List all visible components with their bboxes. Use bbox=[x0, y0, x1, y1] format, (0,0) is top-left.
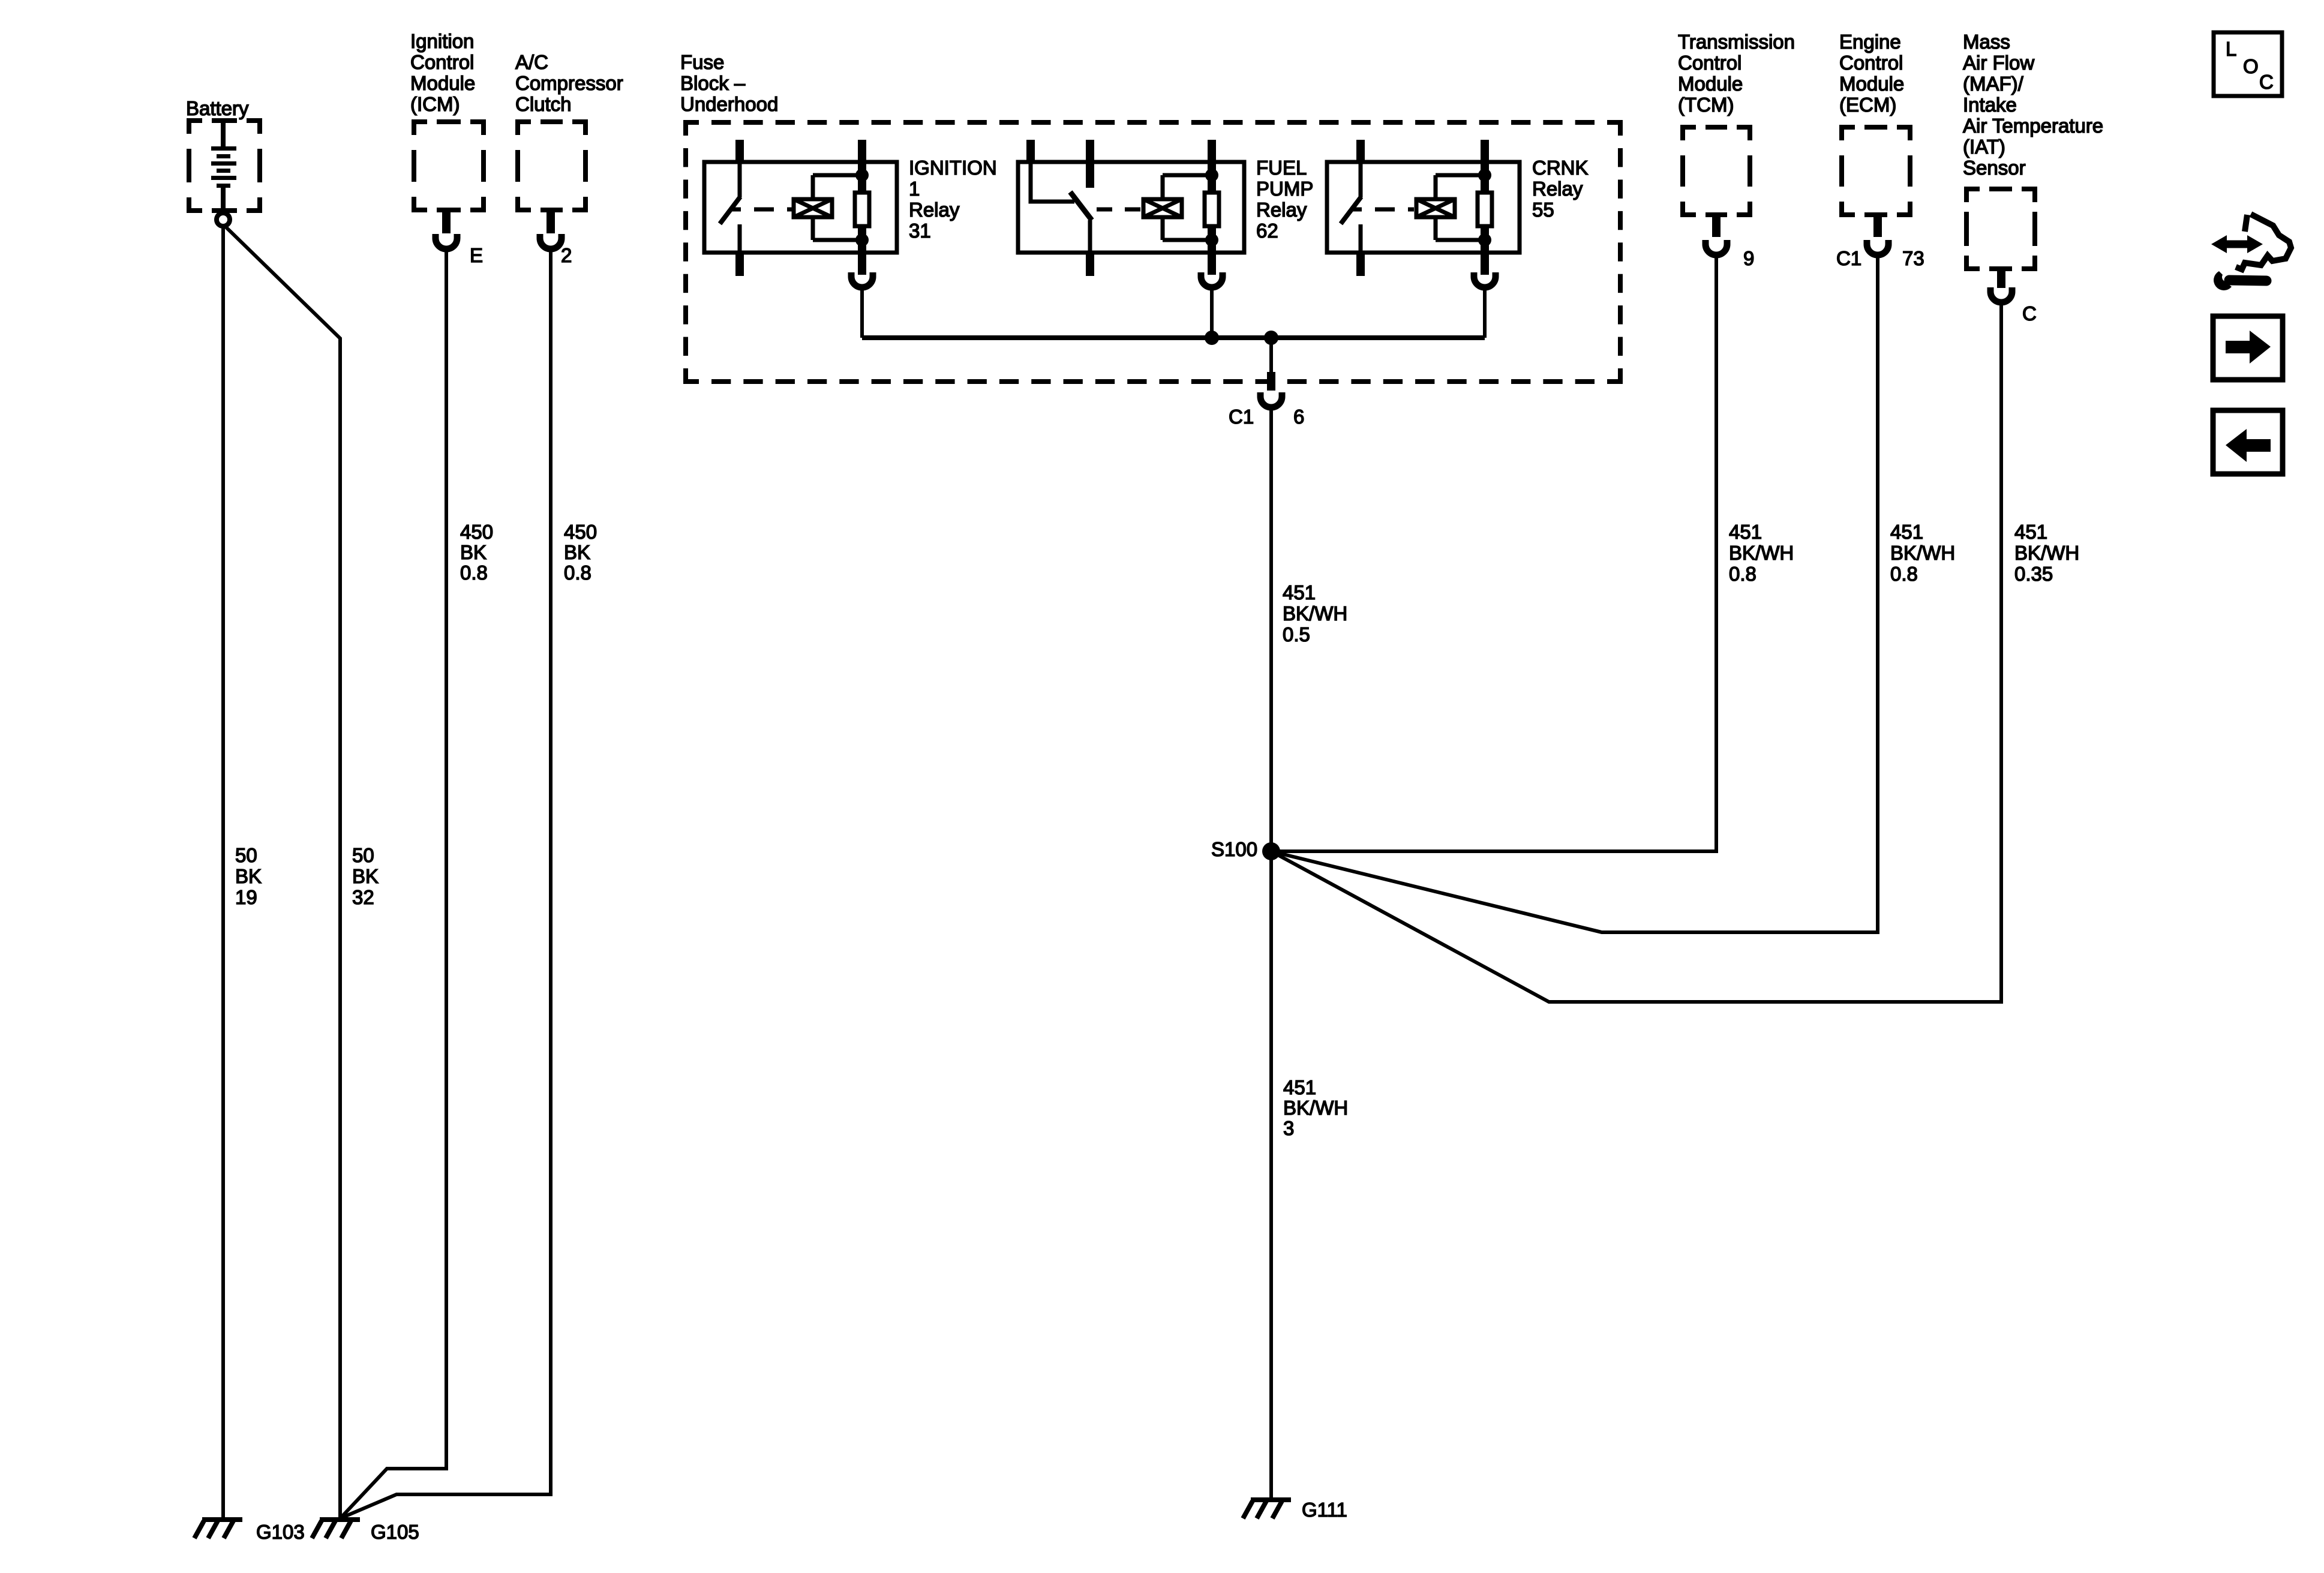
svg-text:(ECM): (ECM) bbox=[1839, 94, 1896, 116]
svg-text:G103: G103 bbox=[256, 1521, 305, 1543]
svg-text:Relay: Relay bbox=[1256, 199, 1307, 221]
svg-text:O: O bbox=[2243, 55, 2259, 77]
svg-text:31: 31 bbox=[909, 220, 931, 242]
svg-text:CRNK: CRNK bbox=[1532, 157, 1589, 179]
svg-text:50: 50 bbox=[235, 844, 257, 866]
svg-text:0.8: 0.8 bbox=[1729, 563, 1756, 585]
svg-text:0.5: 0.5 bbox=[1283, 623, 1310, 646]
svg-text:451: 451 bbox=[1890, 521, 1923, 543]
svg-text:Air Temperature: Air Temperature bbox=[1963, 115, 2103, 137]
svg-text:Compressor: Compressor bbox=[515, 72, 623, 94]
svg-text:0.35: 0.35 bbox=[2014, 563, 2053, 585]
svg-text:(ICM): (ICM) bbox=[410, 93, 460, 115]
svg-text:9: 9 bbox=[1743, 247, 1754, 269]
svg-text:451: 451 bbox=[2014, 521, 2047, 543]
svg-text:G111: G111 bbox=[1302, 1499, 1347, 1521]
svg-text:C: C bbox=[2022, 302, 2037, 325]
svg-text:Module: Module bbox=[1678, 73, 1743, 95]
svg-text:(MAF)/: (MAF)/ bbox=[1963, 73, 2024, 95]
svg-text:Transmission: Transmission bbox=[1678, 31, 1795, 53]
svg-text:BK/WH: BK/WH bbox=[1890, 542, 1955, 564]
svg-text:450: 450 bbox=[564, 521, 597, 543]
svg-text:E: E bbox=[470, 244, 483, 266]
svg-text:1: 1 bbox=[909, 178, 920, 200]
svg-text:Module: Module bbox=[1839, 73, 1904, 95]
svg-text:62: 62 bbox=[1256, 220, 1278, 242]
svg-text:PUMP: PUMP bbox=[1256, 178, 1313, 200]
svg-text:Engine: Engine bbox=[1839, 31, 1901, 53]
svg-text:Intake: Intake bbox=[1963, 94, 2017, 116]
svg-text:55: 55 bbox=[1532, 199, 1554, 221]
svg-text:C1: C1 bbox=[1836, 247, 1861, 269]
svg-text:6: 6 bbox=[1293, 406, 1304, 428]
svg-text:32: 32 bbox=[352, 886, 374, 908]
svg-text:(TCM): (TCM) bbox=[1678, 94, 1734, 116]
svg-text:451: 451 bbox=[1729, 521, 1762, 543]
svg-text:Block –: Block – bbox=[680, 72, 746, 94]
svg-text:S100: S100 bbox=[1211, 838, 1257, 860]
svg-text:A/C: A/C bbox=[515, 51, 548, 73]
svg-text:Mass: Mass bbox=[1963, 31, 2010, 53]
svg-text:450: 450 bbox=[460, 521, 493, 543]
svg-text:19: 19 bbox=[235, 886, 257, 908]
svg-text:0.8: 0.8 bbox=[460, 562, 488, 584]
svg-text:C: C bbox=[2259, 71, 2274, 93]
svg-text:FUEL: FUEL bbox=[1256, 157, 1307, 179]
svg-text:Air Flow: Air Flow bbox=[1963, 52, 2034, 74]
svg-text:2: 2 bbox=[561, 244, 572, 266]
svg-text:BK/WH: BK/WH bbox=[1283, 602, 1347, 625]
svg-text:BK: BK bbox=[352, 865, 379, 887]
svg-text:BK: BK bbox=[235, 865, 262, 887]
svg-text:IGNITION: IGNITION bbox=[909, 157, 997, 179]
svg-text:73: 73 bbox=[1902, 247, 1924, 269]
svg-text:0.8: 0.8 bbox=[1890, 563, 1918, 585]
svg-text:0.8: 0.8 bbox=[564, 562, 591, 584]
svg-text:BK: BK bbox=[460, 541, 487, 563]
svg-text:BK/WH: BK/WH bbox=[2014, 542, 2079, 564]
svg-text:50: 50 bbox=[352, 844, 374, 866]
svg-text:Sensor: Sensor bbox=[1963, 157, 2026, 179]
svg-text:3: 3 bbox=[1283, 1117, 1294, 1139]
svg-text:BK/WH: BK/WH bbox=[1729, 542, 1794, 564]
svg-text:BK: BK bbox=[564, 541, 590, 563]
svg-text:Relay: Relay bbox=[1532, 178, 1583, 200]
svg-text:Ignition: Ignition bbox=[410, 30, 474, 52]
svg-text:Underhood: Underhood bbox=[680, 93, 778, 115]
svg-text:451: 451 bbox=[1283, 1076, 1316, 1098]
svg-text:(IAT): (IAT) bbox=[1963, 136, 2005, 158]
svg-text:Control: Control bbox=[1839, 52, 1903, 74]
svg-text:Control: Control bbox=[410, 51, 474, 73]
svg-text:Module: Module bbox=[410, 72, 475, 94]
svg-text:451: 451 bbox=[1283, 581, 1316, 604]
svg-text:Fuse: Fuse bbox=[680, 51, 724, 73]
svg-text:C1: C1 bbox=[1229, 406, 1254, 428]
svg-text:Control: Control bbox=[1678, 52, 1742, 74]
svg-text:Clutch: Clutch bbox=[515, 93, 572, 115]
svg-text:Battery: Battery bbox=[186, 97, 249, 119]
svg-text:BK/WH: BK/WH bbox=[1283, 1097, 1348, 1119]
svg-text:G105: G105 bbox=[371, 1521, 419, 1543]
svg-text:Relay: Relay bbox=[909, 199, 960, 221]
svg-text:L: L bbox=[2226, 38, 2236, 60]
